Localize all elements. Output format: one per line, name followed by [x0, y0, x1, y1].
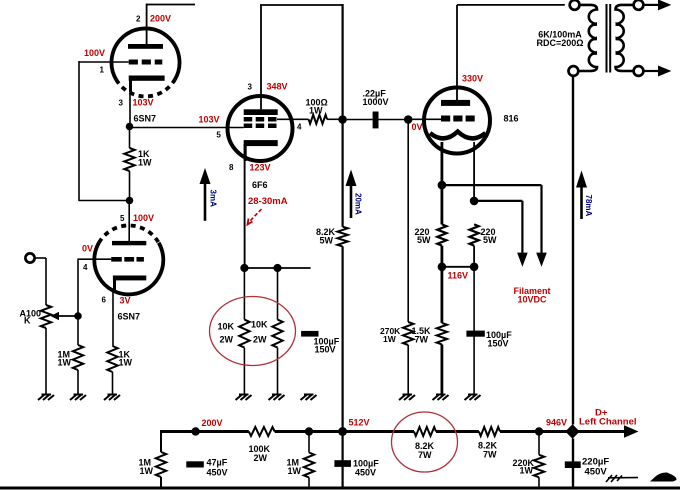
svg-text:6F6: 6F6 — [252, 180, 268, 190]
svg-text:450V: 450V — [207, 467, 228, 477]
wire input to pot — [35, 258, 46, 305]
label 100V plate V1b — [133, 213, 154, 223]
input terminal — [25, 253, 34, 262]
V1a cathode — [129, 76, 165, 93]
node 200V — [191, 427, 199, 435]
wire 270K to ground — [407, 345, 409, 394]
label 1M 1W — [58, 350, 72, 368]
svg-text:816: 816 — [504, 113, 519, 123]
svg-text:1000V: 1000V — [363, 97, 389, 107]
svg-text:330V: 330V — [462, 74, 483, 84]
ground cathode V1b — [104, 395, 120, 401]
label 10K 2W left — [218, 322, 235, 345]
label 1.5K 7W — [412, 326, 432, 344]
wire node to 1M mid — [308, 432, 310, 453]
label 100V grid V1a — [84, 48, 105, 58]
svg-text:100V: 100V — [84, 48, 105, 58]
label 28-30mA — [248, 196, 288, 207]
svg-text:123V: 123V — [250, 162, 271, 172]
label 220K 1W — [513, 458, 535, 476]
svg-text:1W: 1W — [288, 466, 302, 476]
label tube type 6SN7 lower — [118, 312, 141, 322]
svg-text:3: 3 — [119, 99, 124, 108]
OPT secondary winding — [616, 5, 634, 71]
wire cathode V1a — [129, 91, 131, 127]
svg-text:6SN7: 6SN7 — [118, 312, 141, 322]
svg-text:5: 5 — [216, 131, 221, 140]
wire 1K to node — [129, 171, 131, 201]
svg-text:7W: 7W — [415, 334, 429, 344]
svg-text:7W: 7W — [418, 450, 432, 460]
wire V2 plate to top rail — [260, 5, 343, 109]
ground 1.5K — [433, 395, 449, 401]
label 100K 2W — [249, 444, 271, 463]
capacitor 100uF 150V cathode bypass — [301, 331, 318, 337]
svg-text:0V: 0V — [82, 244, 93, 254]
label 100uF 450V — [353, 458, 379, 477]
wire 1M mid to ground line — [308, 478, 310, 489]
tube V2 6F6 envelope — [228, 96, 293, 161]
svg-text:5W: 5W — [320, 236, 334, 246]
wire 10K left to ground — [243, 348, 245, 394]
ground 1M — [70, 395, 86, 401]
ground 270K — [399, 395, 415, 401]
resistor 1.5K 7W — [437, 323, 447, 345]
V1b cathode — [113, 276, 146, 292]
label 10K 2W right — [251, 320, 268, 345]
svg-text:1W: 1W — [119, 358, 133, 368]
node 116V left — [438, 263, 447, 272]
ground cathode bypass — [301, 395, 317, 401]
svg-text:946V: 946V — [546, 418, 567, 428]
svg-text:5W: 5W — [417, 235, 431, 245]
pin 8 label V2 — [229, 163, 234, 172]
ground filament cap — [465, 395, 481, 401]
ground 10K right — [269, 395, 285, 401]
label 512V — [349, 418, 370, 428]
label 330V plate V3 — [462, 74, 483, 84]
wire node to 10K left — [243, 268, 245, 320]
wire filament feed lower — [474, 201, 522, 253]
resistor 8.2K 7W first — [414, 427, 436, 436]
V2 cathode — [244, 140, 278, 161]
wire 1K to ground — [112, 372, 114, 394]
label .22uF 1000V — [363, 88, 389, 107]
svg-text:100V: 100V — [133, 213, 154, 223]
svg-text:7W: 7W — [483, 450, 497, 460]
label 8.2K 7W second — [478, 441, 498, 460]
tube V1a 6SN7 envelope (dashed arc) — [116, 80, 175, 97]
label tube type 6SN7 upper — [134, 114, 157, 124]
V3 grid (dashed) — [441, 116, 475, 122]
wire 8.2K 5W to bottom rail — [342, 246, 344, 431]
node 220K junction — [535, 427, 543, 435]
V1a grid (dashed) — [129, 60, 163, 65]
wire OPT return to B+ rail — [572, 76, 574, 488]
OPT secondary top terminal — [634, 0, 644, 10]
wire grid V1a feedback — [79, 61, 130, 201]
svg-text:150V: 150V — [315, 345, 336, 355]
annotation sketch blob — [650, 472, 677, 481]
label 200V plate V1a — [150, 14, 171, 24]
current arrow 3mA — [200, 168, 211, 221]
wire node down to 8.2K 5W — [342, 120, 344, 227]
svg-text:450V: 450V — [585, 466, 608, 477]
pot wiper arrow — [51, 312, 79, 320]
label 220uF 450V — [582, 457, 609, 478]
wire plate V1a to 200V dead end — [147, 4, 195, 44]
resistor 1M 1W bleeder left — [156, 452, 166, 477]
wire 1.5K to ground — [440, 344, 443, 394]
wire 220ohm left to node — [440, 246, 443, 267]
wire B+ rail seg4 — [500, 430, 625, 433]
node V1a cathode junction — [126, 123, 134, 131]
label 6K/100mA RDC=200ohm — [537, 29, 584, 48]
OPT primary winding 6K/100mA — [578, 5, 597, 71]
label 348V plate V2 — [267, 81, 288, 91]
wire 1M left to ground line — [160, 477, 162, 488]
OPT primary top terminal — [570, 0, 580, 10]
wire cathode bus — [244, 267, 310, 269]
svg-text:3mA: 3mA — [209, 190, 218, 208]
pin 1 label — [100, 66, 105, 75]
svg-text:5: 5 — [120, 214, 125, 223]
wire node to V1b plate — [128, 201, 130, 242]
svg-text:4: 4 — [297, 123, 302, 132]
label Filament 10VDC — [514, 286, 551, 304]
svg-text:0V: 0V — [412, 122, 423, 132]
wire node to 10K right — [277, 268, 279, 320]
annotation red ellipse 10K pair — [210, 297, 296, 366]
label 3V cathode V1b — [120, 296, 131, 306]
svg-text:10VDC: 10VDC — [518, 294, 548, 304]
tube V1b 6SN7 envelope (solid arc) — [94, 243, 163, 295]
wire filament right leg — [473, 142, 475, 201]
label 78mA — [584, 195, 593, 217]
label 100ohm 1W — [306, 98, 328, 116]
potentiometer A100K — [41, 305, 51, 328]
node cathode junction right — [273, 264, 281, 272]
svg-text:K: K — [24, 316, 31, 326]
wire 116V down to 1.5K — [440, 267, 443, 323]
annotation red circle 8.2K — [392, 412, 458, 472]
svg-text:1: 1 — [100, 66, 105, 75]
wire pot to ground — [45, 328, 47, 394]
label 0V grid V3 — [412, 122, 423, 132]
label 100uF 150V filament — [486, 330, 512, 348]
V2 screen grid (dashed) — [244, 117, 277, 122]
capacitor .22uF 1000V — [347, 112, 404, 129]
label 103V grid V2 — [199, 114, 220, 124]
resistor 100K 2W — [249, 427, 275, 436]
wire left leg to 220ohm — [440, 185, 443, 224]
current arrow 20mA — [346, 170, 357, 219]
label 8.2K 7W first — [415, 441, 435, 460]
svg-text:1W: 1W — [383, 334, 397, 344]
svg-text:1W: 1W — [309, 106, 323, 116]
wire 220K to ground line — [538, 477, 540, 488]
wire 1M to ground — [77, 370, 79, 394]
wire node to 1K — [129, 127, 131, 149]
OPT primary bottom terminal — [569, 66, 579, 76]
label 123V cathode V2 — [250, 162, 271, 172]
V1a plate — [128, 44, 163, 49]
svg-text:450V: 450V — [355, 468, 376, 478]
label 1M 1W mid — [287, 457, 302, 476]
svg-text:200V: 200V — [150, 14, 171, 24]
wire 116V junction — [442, 266, 474, 268]
svg-text:10K: 10K — [251, 320, 268, 330]
node cathode junction left — [240, 264, 248, 272]
resistor 1K 1W interstage — [124, 148, 134, 171]
resistor 270K 1W — [403, 322, 413, 345]
wire B+ rail seg2 — [275, 430, 414, 433]
label tube type 6F6 — [252, 180, 268, 190]
svg-text:28-30mA: 28-30mA — [248, 196, 288, 207]
label 103V cathode V1a — [133, 98, 154, 108]
resistor 220K 1W — [534, 455, 544, 478]
svg-text:103V: 103V — [199, 114, 220, 124]
label 1M 1W left — [139, 457, 154, 476]
wire B+ rail seg3 — [436, 430, 479, 433]
svg-text:6SN7: 6SN7 — [134, 114, 157, 124]
svg-text:20mA: 20mA — [354, 193, 363, 215]
pin 2 label — [136, 15, 141, 24]
svg-text:1W: 1W — [140, 466, 154, 476]
pin 3 label — [119, 99, 124, 108]
resistor 8.2K 5W — [337, 227, 347, 247]
svg-text:RDC=200Ω: RDC=200Ω — [537, 38, 584, 48]
pin 5 label V2 — [216, 131, 221, 140]
wire V3 plate to OPT — [457, 4, 565, 6]
wire top rail down to coupling node — [342, 4, 344, 120]
pin 4 label V2 — [297, 123, 302, 132]
wire node to 220K — [538, 432, 540, 455]
V1b plate — [112, 241, 146, 245]
resistor 10K 2W left — [239, 320, 249, 348]
svg-text:2: 2 — [136, 15, 141, 24]
OPT secondary top output arrow — [643, 0, 671, 10]
wire screen to 100ohm — [277, 118, 309, 120]
OPT secondary bottom terminal — [634, 66, 644, 76]
V2 control grid (dashed) — [244, 124, 277, 129]
svg-text:2W: 2W — [220, 335, 234, 345]
svg-text:47µF: 47µF — [207, 458, 228, 468]
node rail 1M junction — [305, 427, 313, 435]
svg-text:512V: 512V — [349, 418, 370, 428]
capacitor 100uF 450V — [334, 460, 351, 467]
svg-text:Left Channel: Left Channel — [579, 417, 637, 428]
wire 116V right down — [473, 267, 475, 394]
node 512V — [338, 427, 347, 436]
node 0V grid junction — [404, 115, 413, 124]
resistor 1M 1W mid — [304, 453, 314, 478]
wire grid V1b — [78, 259, 111, 317]
resistor 100ohm 1W — [309, 115, 328, 124]
resistor 220ohm 5W left — [437, 224, 446, 245]
V2 plate — [244, 109, 278, 115]
svg-text:1W: 1W — [58, 358, 72, 368]
wire rail left leg — [160, 430, 162, 452]
V3 plate — [441, 100, 470, 106]
svg-text:3V: 3V — [120, 296, 131, 306]
tube V1b 6SN7 envelope (dashed arc) — [99, 225, 159, 242]
label 3mA — [209, 190, 218, 208]
label 270K 1W — [380, 326, 401, 344]
label 47uF 450V — [207, 458, 228, 478]
svg-text:150V: 150V — [488, 338, 509, 348]
label D+ Left Channel — [579, 408, 637, 428]
resistor 220ohm 5W right chain — [470, 224, 479, 266]
V3 filament — [430, 132, 486, 139]
wire node to 1M — [77, 316, 79, 345]
wire filament feed upper — [442, 185, 542, 253]
wire V3 plate — [456, 5, 458, 100]
label 100uF 150V bypass — [314, 336, 340, 354]
node filament left — [438, 181, 447, 190]
annotation sketch ground doodle — [606, 475, 638, 482]
label tube type 816 — [504, 113, 519, 123]
svg-text:103V: 103V — [133, 98, 154, 108]
node screen/plate junction — [338, 115, 347, 124]
OPT secondary bottom output arrow — [643, 66, 671, 77]
resistor 10K 2W right — [272, 320, 282, 348]
wire V1a cathode to V2 grid — [130, 127, 244, 129]
node 116V right — [470, 263, 479, 272]
tube V3 816 envelope — [424, 88, 490, 154]
wire cathode V2 down — [244, 144, 246, 268]
annotation arrow 28-30mA — [248, 209, 262, 225]
node filament right — [470, 197, 479, 206]
wire filament left leg — [440, 142, 443, 185]
pin 4 label — [83, 263, 88, 272]
resistor 1M 1W grid leak — [73, 345, 83, 370]
resistor 1K 1W cathode V1b — [107, 346, 117, 372]
ground 10K left — [236, 395, 252, 401]
wire cathode V1b — [112, 290, 114, 346]
svg-text:200V: 200V — [202, 418, 223, 428]
pin 3 label V2 — [248, 82, 253, 91]
filament feed arrowhead upper — [536, 253, 547, 267]
svg-text:6: 6 — [102, 296, 107, 305]
label A100K — [20, 309, 42, 326]
resistor 8.2K 7W second — [479, 427, 500, 436]
label 1K 1W cathode — [119, 350, 133, 368]
label 116V — [448, 271, 469, 281]
wire node to V3 grid — [412, 118, 441, 120]
wire 0V node down to 270K — [407, 120, 409, 323]
svg-text:4: 4 — [83, 263, 88, 272]
ground pot — [38, 395, 54, 401]
svg-text:1W: 1W — [138, 157, 152, 167]
svg-text:2W: 2W — [253, 335, 267, 345]
capacitor 220uF 450V — [565, 461, 581, 468]
label 1K 1W — [138, 149, 152, 167]
pin 5 label — [120, 214, 125, 223]
svg-text:10K: 10K — [218, 322, 235, 332]
svg-text:1W: 1W — [520, 466, 534, 476]
wire 512V down — [342, 432, 344, 489]
node direct-coupling junction — [126, 197, 134, 205]
label 220 5W left — [415, 227, 432, 245]
svg-text:8: 8 — [229, 163, 234, 172]
svg-text:348V: 348V — [267, 81, 288, 91]
filament feed arrowhead lower — [517, 253, 528, 267]
svg-text:78mA: 78mA — [584, 195, 593, 217]
wire 100ohm to node — [327, 118, 339, 120]
B+ output arrowhead — [624, 425, 639, 437]
svg-text:3: 3 — [248, 82, 253, 91]
label 346V — [546, 418, 567, 428]
node B+ diamond — [565, 424, 579, 438]
label 0V grid V1b — [82, 244, 93, 254]
pin 6 label — [102, 296, 107, 305]
capacitor 100uF 150V filament — [466, 331, 484, 337]
wire B+ rail seg1 — [161, 430, 249, 433]
OPT core — [607, 4, 611, 73]
ground return line — [0, 487, 680, 490]
capacitor 47uF 450V — [186, 461, 204, 467]
wire 10K right to ground — [277, 348, 279, 394]
label 220 5W right — [481, 227, 498, 245]
current arrow 78mA — [576, 171, 587, 220]
tube V1a 6SN7 envelope (solid arc) — [111, 28, 179, 79]
V1b grid (dashed) — [111, 257, 144, 262]
svg-text:2W: 2W — [254, 453, 268, 463]
label 200V bottom — [202, 418, 223, 428]
node wiper junction — [74, 312, 82, 320]
svg-text:5W: 5W — [483, 235, 497, 245]
label 20mA — [354, 193, 363, 215]
svg-text:116V: 116V — [448, 271, 469, 281]
label 8.2K 5W — [316, 227, 336, 246]
